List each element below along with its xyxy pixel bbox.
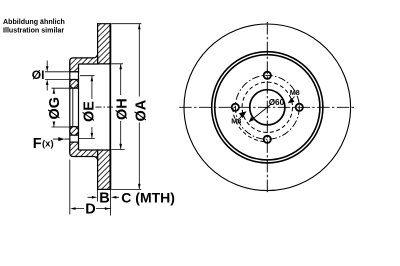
- svg-text:F: F: [33, 136, 42, 152]
- svg-text:ØG: ØG: [47, 97, 63, 120]
- hat outer bold circle: [212, 52, 323, 163]
- centre hole bold circle: [250, 90, 285, 125]
- svg-text:Abbildung ähnlich: Abbildung ähnlich: [3, 18, 65, 26]
- svg-text:D: D: [85, 202, 95, 218]
- section axis centerline: [96, 106, 114, 108]
- friction inner bold circle: [215, 55, 320, 160]
- horizontal centerline: [179, 106, 355, 108]
- disc right face (thick): [109, 24, 111, 190]
- svg-text:Illustration similar: Illustration similar: [3, 27, 64, 35]
- dashed circle outer: [233, 104, 264, 141]
- bolt hole top: [264, 72, 271, 79]
- friction ring bottom section (hatched): [98, 150, 111, 189]
- svg-text:ØH: ØH: [114, 98, 130, 120]
- hat bell bottom band (hatched): [70, 150, 98, 160]
- dimension ØG: [52, 88, 70, 127]
- bell inner surface lines: [79, 64, 111, 150]
- bolt hole bottom: [264, 136, 271, 143]
- centre hole chamfer line: [72, 88, 74, 126]
- wheel bolt hole top (section): [70, 72, 79, 80]
- boss circle top (hatched): [70, 79, 79, 88]
- centre hole edges: [70, 88, 79, 126]
- dimension ØI: [45, 61, 70, 91]
- svg-text:Ø60: Ø60: [269, 98, 285, 107]
- svg-text:C (MTH): C (MTH): [121, 190, 175, 206]
- dimension ØH: [112, 64, 125, 150]
- bolt hole right: [296, 104, 303, 111]
- bolt circle (dash-dot): [235, 75, 299, 139]
- friction ring top section (hatched): [98, 24, 111, 64]
- svg-text:ØI: ØI: [32, 68, 45, 82]
- hat bell top band (hatched): [70, 55, 98, 64]
- svg-text:M8: M8: [290, 88, 300, 97]
- bolt hole left: [232, 104, 239, 111]
- dimension ØA: [112, 24, 142, 190]
- wheel bolt hole bottom (section): [70, 135, 79, 142]
- dimension D: [70, 160, 111, 215]
- dimension B: [88, 189, 119, 215]
- dashed circle inner: [242, 82, 292, 132]
- boss circle bottom (hatched): [70, 127, 79, 136]
- svg-text:ØA: ØA: [134, 99, 150, 121]
- hub plate upper hatched part: [70, 62, 79, 72]
- svg-text:(x): (x): [42, 139, 54, 150]
- svg-text:ØE: ØE: [82, 101, 98, 122]
- outer circle: [184, 24, 351, 191]
- vertical centerline: [266, 22, 268, 195]
- hub plate side edges: [70, 61, 79, 153]
- hub plate lower hatched part: [70, 142, 79, 152]
- svg-text:B: B: [99, 191, 109, 207]
- dimension ØE: [79, 76, 95, 139]
